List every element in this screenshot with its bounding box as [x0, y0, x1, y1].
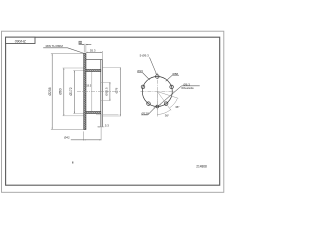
inner hat line [91, 72, 93, 112]
title box [6, 37, 35, 43]
svg-text:B: B [79, 40, 81, 44]
bolt holes 5x O9.3 [156, 75, 160, 79]
flange strips hatched [86, 70, 101, 72]
5.3 dim bottom right [96, 114, 119, 116]
Ø78 dim [119, 68, 121, 116]
svg-text:Ø258: Ø258 [48, 87, 52, 95]
small hole O6.3 bottom [156, 105, 159, 108]
svg-text:Ø172: Ø172 [69, 87, 73, 95]
svg-text:090/HZ: 090/HZ [15, 39, 26, 43]
B datum [79, 41, 82, 44]
svg-text:214868: 214868 [196, 164, 207, 168]
tiny mark bottom center [72, 162, 73, 164]
svg-text:Wheelside: Wheelside [181, 86, 194, 90]
angle dims [156, 92, 158, 117]
Ø62.5 dim [109, 82, 111, 100]
Ø60 dim [63, 68, 65, 116]
section centerline [77, 91, 120, 93]
svg-text:Ø62.5: Ø62.5 [105, 87, 109, 96]
bolt circle [142, 77, 172, 107]
svg-text:Ø78: Ø78 [114, 87, 118, 93]
Ø42 dim bottom [83, 131, 85, 140]
svg-text:Ø60: Ø60 [58, 88, 62, 94]
inner border [6, 37, 220, 185]
svg-text:36°: 36° [165, 113, 169, 117]
disc band (friction ring, hatched) [84, 54, 86, 130]
svg-text:55.3: 55.3 [90, 49, 96, 53]
Ø172 dim [73, 71, 75, 114]
inner right face line [100, 60, 102, 127]
svg-text:MIN TH 8MM: MIN TH 8MM [46, 44, 64, 48]
svg-text:Ø42: Ø42 [64, 135, 70, 139]
centerlines [140, 91, 174, 93]
Ø258 dim [51, 54, 53, 130]
outer frame [2, 31, 224, 192]
svg-text:5-Ø9.3: 5-Ø9.3 [140, 54, 150, 58]
svg-text:36°: 36° [175, 105, 179, 109]
svg-text:5.3: 5.3 [105, 123, 109, 127]
hat outline [86, 60, 102, 127]
svg-text:19.5: 19.5 [86, 83, 92, 87]
